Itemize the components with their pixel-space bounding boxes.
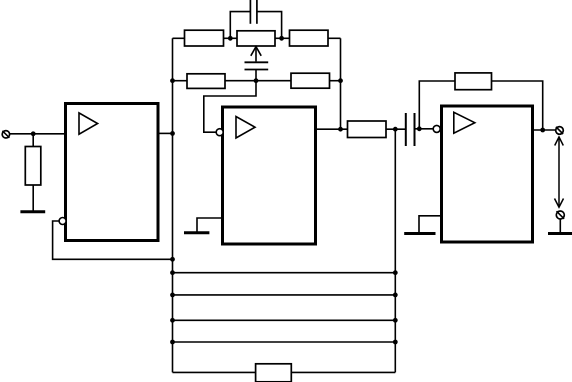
wire C2 to row2 node: [255, 70, 257, 81]
resistor R7: [455, 73, 492, 90]
node bus3 left: [170, 318, 175, 323]
capacitor C2: [245, 62, 269, 69]
resistor R3: [290, 30, 329, 46]
capacitor C3: [406, 113, 415, 146]
potentiometer RP1 body: [237, 31, 275, 46]
node input junction: [31, 131, 36, 136]
ground G4: [548, 232, 572, 235]
ground G2: [184, 231, 209, 234]
wire junction down to resistor R1: [32, 134, 34, 147]
wire U3 ground tap: [419, 216, 442, 233]
node U3 feedback tap: [417, 126, 422, 131]
capacitor C1: [250, 0, 257, 24]
node wiper row2: [254, 78, 259, 83]
amplifier U3 triangle: [454, 112, 475, 133]
node bus3 right: [393, 318, 398, 323]
amplifier U2 box: [223, 107, 316, 244]
wire bus line 1: [173, 272, 396, 274]
inverting pin circle U3: [433, 125, 440, 132]
wire bus right vertical rail: [394, 129, 396, 372]
node row2 left: [170, 78, 175, 83]
wire row1 right segment: [328, 37, 341, 39]
node C1 right tap: [279, 36, 284, 41]
amplifier U3 box: [442, 106, 533, 242]
wire bottom bus segment right: [291, 371, 395, 373]
wire X3 to ground: [559, 219, 561, 233]
node feedback joins bus left: [170, 257, 175, 262]
wire U1 inverting input feedback path: [53, 221, 173, 259]
wire R2 to potentiometer RP1: [224, 37, 238, 39]
wire resistor R1 to ground: [32, 185, 34, 212]
resistor R6: [348, 121, 387, 138]
wire R5 to right rail: [330, 80, 341, 82]
node U1 output junction: [170, 131, 175, 136]
node bus1 left: [170, 270, 175, 275]
node bus right rail top: [393, 127, 398, 132]
node row2 right: [338, 78, 343, 83]
node bus4 right: [393, 340, 398, 345]
wire U3 output: [533, 129, 556, 131]
amplifier U1 box: [66, 104, 159, 241]
wire feedback right leg: [492, 81, 543, 130]
wire RP1 to resistor R3: [275, 37, 290, 39]
amplifier U2 triangle: [236, 117, 255, 139]
potentiometer RP1 wiper arrow: [251, 47, 261, 62]
wire right feedback rail: [340, 38, 342, 129]
wire row2 left segment: [173, 80, 188, 82]
wire bus line 2: [173, 294, 396, 296]
ground G3: [404, 232, 435, 235]
wire U2 ground tap: [197, 218, 223, 232]
node bus2 right: [393, 293, 398, 298]
wire U3 feedback loop: [419, 81, 455, 129]
measurement arrow: [555, 137, 564, 207]
inverting pin circle U1: [59, 218, 66, 225]
node U2 output right rail: [338, 127, 343, 132]
resistor R5: [291, 73, 330, 88]
ground G1: [20, 210, 45, 213]
wire R4 to R5: [225, 80, 291, 82]
wire bottom bus segment left: [173, 371, 257, 373]
output terminal X2: [556, 127, 564, 135]
inverting pin circle U2: [216, 129, 223, 136]
wire C1 right branch: [257, 12, 282, 39]
wire U2 inverting input path: [204, 81, 256, 133]
resistor R2: [185, 30, 224, 46]
wire U2 output: [316, 128, 348, 130]
wire left vertical rail: [172, 38, 174, 372]
output terminal X3: [556, 211, 564, 219]
node C1 left tap: [228, 36, 233, 41]
wire U1 output: [158, 132, 173, 134]
node bus4 left: [170, 340, 175, 345]
resistor R4: [187, 74, 225, 89]
wire C3 to U3 input: [415, 128, 434, 130]
node bus2 left: [170, 293, 175, 298]
wire R6 to capacitor C3: [386, 128, 406, 130]
wire input to amplifier U1: [10, 133, 65, 135]
wire row1 left segment: [173, 37, 185, 39]
wire bus line 4: [173, 341, 396, 343]
input terminal X1: [2, 131, 9, 138]
amplifier U1 triangle: [79, 113, 98, 134]
resistor R1: [25, 147, 41, 186]
node U3 output junction: [540, 128, 545, 133]
wire bus line 3: [173, 319, 396, 321]
wire C1 left branch: [230, 12, 250, 39]
resistor R8: [256, 364, 292, 382]
node bus1 right: [393, 270, 398, 275]
